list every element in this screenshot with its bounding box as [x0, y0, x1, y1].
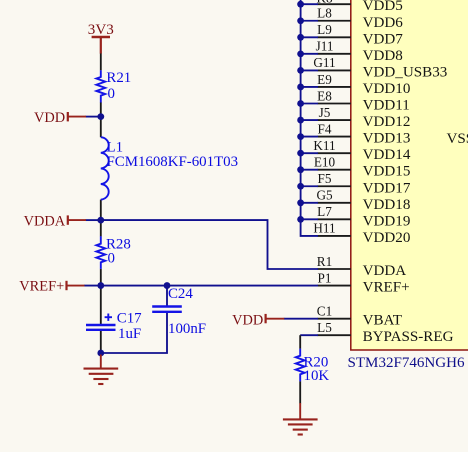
svg-text:VDD10: VDD10	[363, 81, 411, 97]
svg-text:H11: H11	[313, 221, 335, 236]
svg-text:J11: J11	[316, 39, 334, 54]
svg-text:G5: G5	[316, 188, 333, 203]
svg-text:VDD: VDD	[34, 110, 65, 126]
svg-text:C24: C24	[168, 286, 193, 302]
svg-text:F5: F5	[318, 171, 332, 186]
svg-text:VDD8: VDD8	[363, 48, 403, 64]
svg-text:C17: C17	[117, 311, 142, 327]
svg-text:VDD18: VDD18	[363, 197, 411, 213]
svg-text:VDD19: VDD19	[363, 213, 411, 229]
svg-text:0: 0	[108, 251, 115, 267]
svg-text:BYPASS-REG: BYPASS-REG	[363, 329, 454, 345]
svg-text:G11: G11	[313, 55, 335, 70]
svg-text:K8: K8	[316, 0, 333, 5]
svg-text:VDD: VDD	[232, 312, 263, 328]
svg-text:VREF+: VREF+	[363, 280, 410, 296]
svg-text:VDD15: VDD15	[363, 164, 411, 180]
svg-text:L9: L9	[317, 22, 332, 37]
svg-text:L5: L5	[317, 320, 332, 335]
svg-text:E9: E9	[317, 72, 332, 87]
svg-text:VDDA: VDDA	[363, 263, 407, 279]
svg-text:1uF: 1uF	[118, 326, 141, 342]
svg-text:L8: L8	[317, 6, 332, 21]
svg-text:VDD12: VDD12	[363, 114, 411, 130]
svg-text:VDD6: VDD6	[363, 15, 404, 31]
svg-text:J5: J5	[319, 105, 331, 120]
svg-text:STM32F746NGH6: STM32F746NGH6	[348, 355, 466, 371]
svg-text:3V3: 3V3	[88, 22, 114, 38]
svg-text:VDD11: VDD11	[363, 98, 410, 114]
svg-text:K11: K11	[313, 138, 335, 153]
svg-text:VDD20: VDD20	[363, 230, 411, 246]
svg-text:L7: L7	[317, 204, 332, 219]
svg-text:VDD17: VDD17	[363, 180, 411, 196]
svg-text:0: 0	[108, 86, 115, 102]
svg-text:VDD13: VDD13	[363, 131, 411, 147]
svg-text:E10: E10	[314, 155, 336, 170]
svg-text:VDD_USB33: VDD_USB33	[363, 64, 448, 80]
svg-text:VDD5: VDD5	[363, 0, 403, 14]
svg-text:VDD7: VDD7	[363, 31, 404, 47]
svg-text:VDDA: VDDA	[24, 213, 66, 229]
svg-text:R21: R21	[106, 70, 131, 86]
svg-text:100nF: 100nF	[168, 321, 206, 337]
svg-text:R1: R1	[317, 254, 332, 269]
svg-text:FCM1608KF-601T03: FCM1608KF-601T03	[107, 154, 239, 170]
svg-text:VREF+: VREF+	[19, 279, 64, 295]
svg-text:VSS: VSS	[447, 131, 468, 147]
svg-text:VBAT: VBAT	[363, 313, 402, 329]
svg-text:F4: F4	[318, 121, 332, 136]
svg-text:P1: P1	[318, 270, 332, 285]
svg-text:10K: 10K	[304, 368, 330, 384]
svg-text:L1: L1	[107, 139, 124, 155]
svg-text:C1: C1	[317, 303, 332, 318]
svg-text:VDD14: VDD14	[363, 147, 411, 163]
svg-text:E8: E8	[317, 88, 332, 103]
